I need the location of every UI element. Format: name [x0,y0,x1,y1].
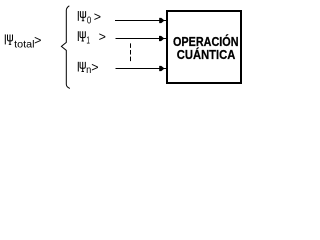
svg-text:>: > [34,33,41,47]
svg-text:CUÁNTICA: CUÁNTICA [177,47,236,62]
svg-text:total: total [14,40,34,51]
svg-text:OPERACIÓN: OPERACIÓN [173,34,239,49]
svg-text:>: > [94,10,101,24]
svg-text:>: > [99,30,106,44]
svg-text:0: 0 [87,16,92,27]
svg-text:>: > [91,61,98,75]
svg-text:1: 1 [86,36,90,47]
